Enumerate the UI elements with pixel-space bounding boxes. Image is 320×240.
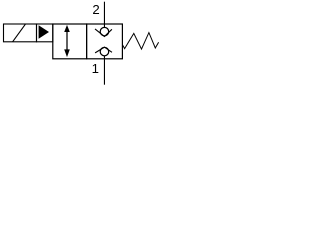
valve envelope right position square <box>87 24 123 59</box>
solenoid coil box <box>4 24 37 42</box>
flow path double arrow <box>64 25 70 57</box>
solenoid diagonal <box>13 24 26 42</box>
svg-text:1: 1 <box>92 61 99 76</box>
valve envelope left position square <box>53 24 87 59</box>
port 2 label <box>92 2 99 17</box>
actuator triangle <box>39 25 49 39</box>
svg-text:2: 2 <box>92 2 99 17</box>
port 1 line <box>103 56 105 85</box>
port 2 line <box>103 2 105 28</box>
return spring <box>122 33 158 50</box>
check seat port 2 <box>95 29 112 37</box>
check ball port 1 <box>100 47 109 56</box>
check seat port 1 <box>95 47 112 53</box>
port 1 label <box>92 61 99 76</box>
check ball port 2 <box>100 27 109 35</box>
armature box <box>37 24 53 42</box>
